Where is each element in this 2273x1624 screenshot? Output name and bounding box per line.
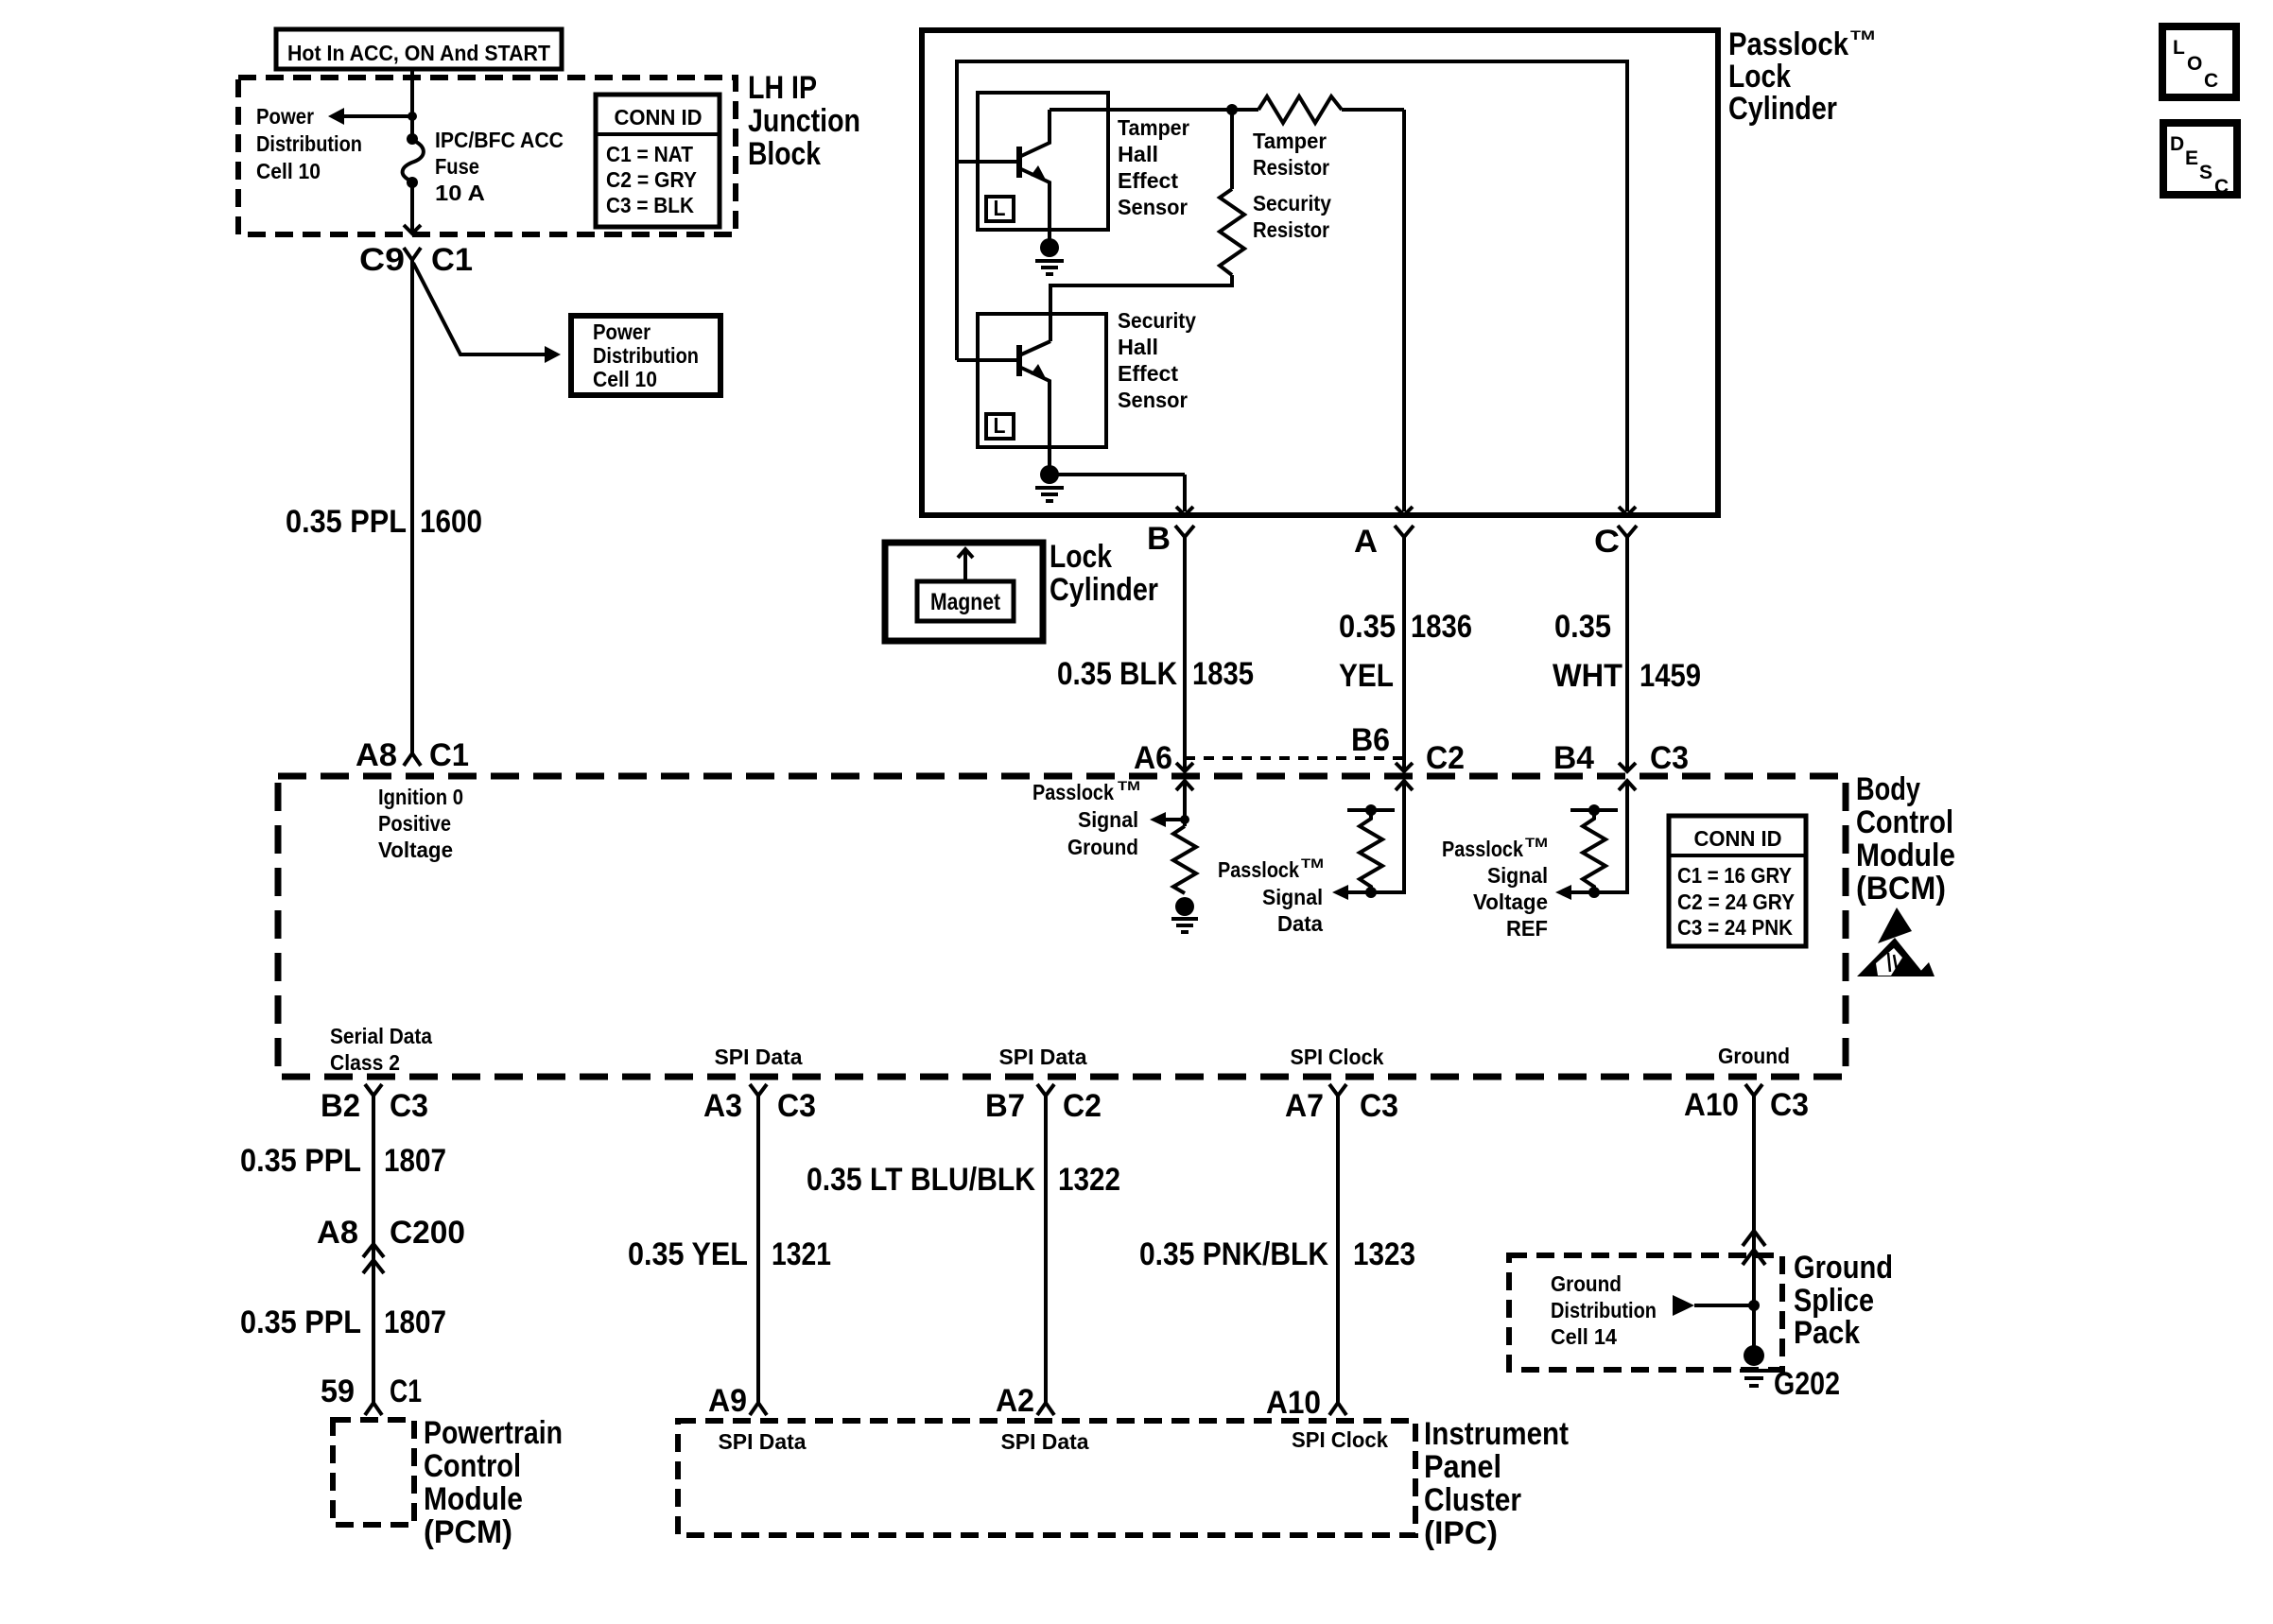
svg-text:TM: TM: [1118, 778, 1140, 793]
svg-text:C1 = 16 GRY: C1 = 16 GRY: [1677, 863, 1792, 888]
svg-text:G202: G202: [1774, 1366, 1840, 1402]
svg-text:Security: Security: [1118, 308, 1196, 333]
svg-text:C9: C9: [359, 242, 405, 278]
svg-text:SPI Data: SPI Data: [1001, 1429, 1089, 1454]
svg-text:SPI Data: SPI Data: [719, 1429, 807, 1454]
svg-text:C3 = 24 PNK: C3 = 24 PNK: [1677, 915, 1793, 940]
svg-text:(IPC): (IPC): [1424, 1515, 1498, 1551]
svg-text:A: A: [1354, 524, 1378, 560]
svg-text:1600: 1600: [420, 504, 482, 540]
svg-text:LH IP: LH IP: [748, 70, 817, 106]
svg-text:Signal: Signal: [1487, 863, 1548, 888]
svg-text:1807: 1807: [384, 1304, 446, 1340]
svg-text:Instrument: Instrument: [1424, 1416, 1569, 1452]
svg-text:L: L: [994, 196, 1006, 220]
svg-text:Ground: Ground: [1794, 1250, 1893, 1286]
svg-text:S: S: [2199, 162, 2212, 183]
svg-text:IPC/BFC ACC: IPC/BFC ACC: [435, 128, 564, 152]
svg-text:Signal: Signal: [1078, 807, 1138, 832]
svg-text:CONN ID: CONN ID: [1694, 826, 1782, 851]
svg-text:C1: C1: [431, 242, 473, 278]
svg-text:Security: Security: [1253, 191, 1331, 216]
svg-text:B6: B6: [1351, 722, 1390, 758]
svg-text:Ground: Ground: [1067, 835, 1138, 859]
svg-text:L: L: [2173, 37, 2185, 59]
svg-text:C1 = NAT: C1 = NAT: [606, 142, 693, 166]
svg-text:D: D: [2170, 133, 2184, 155]
svg-text:Positive: Positive: [378, 811, 451, 836]
svg-text:SPI Data: SPI Data: [715, 1045, 803, 1069]
svg-text:59: 59: [321, 1373, 355, 1409]
svg-text:Block: Block: [748, 136, 821, 172]
svg-text:Sensor: Sensor: [1118, 195, 1188, 219]
svg-text:0.35: 0.35: [1554, 609, 1611, 645]
svg-text:Module: Module: [1856, 838, 1955, 873]
svg-text:C: C: [2204, 70, 2218, 92]
svg-text:0.35 PPL: 0.35 PPL: [240, 1143, 361, 1179]
svg-text:Voltage: Voltage: [378, 838, 453, 862]
svg-text:Cluster: Cluster: [1424, 1482, 1521, 1518]
svg-text:Distribution: Distribution: [1551, 1298, 1657, 1322]
svg-text:C1: C1: [429, 737, 469, 773]
svg-text:Control: Control: [424, 1448, 521, 1484]
svg-text:SPI Clock: SPI Clock: [1292, 1427, 1388, 1452]
svg-text:Passlock: Passlock: [1442, 837, 1523, 861]
svg-text:C2: C2: [1063, 1088, 1102, 1124]
svg-text:O: O: [2187, 53, 2202, 75]
svg-text:1836: 1836: [1411, 609, 1472, 645]
svg-text:SPI Clock: SPI Clock: [1291, 1045, 1384, 1069]
svg-text:Lock: Lock: [1050, 539, 1112, 575]
svg-text:1835: 1835: [1192, 656, 1254, 692]
svg-text:Tamper: Tamper: [1253, 129, 1327, 153]
svg-text:0.35 BLK: 0.35 BLK: [1057, 656, 1177, 692]
svg-text:0.35: 0.35: [1339, 609, 1396, 645]
svg-text:Tamper: Tamper: [1118, 115, 1189, 140]
svg-text:B4: B4: [1553, 740, 1594, 776]
svg-text:WHT: WHT: [1553, 658, 1622, 694]
svg-text:Sensor: Sensor: [1118, 388, 1188, 412]
svg-text:C2 = 24 GRY: C2 = 24 GRY: [1677, 890, 1795, 914]
svg-text:REF: REF: [1506, 916, 1548, 941]
svg-text:Resistor: Resistor: [1253, 155, 1329, 180]
svg-text:Signal: Signal: [1262, 885, 1323, 909]
svg-text:0.35 PPL: 0.35 PPL: [240, 1304, 361, 1340]
svg-text:B2: B2: [321, 1088, 360, 1124]
svg-text:Distribution: Distribution: [593, 343, 699, 368]
svg-text:C: C: [2214, 176, 2229, 198]
svg-text:Cylinder: Cylinder: [1050, 572, 1158, 608]
svg-text:C2 = GRY: C2 = GRY: [606, 167, 697, 192]
svg-text:YEL: YEL: [1339, 658, 1394, 694]
svg-text:Lock: Lock: [1728, 59, 1791, 95]
svg-text:B7: B7: [985, 1088, 1025, 1124]
svg-text:E: E: [2185, 147, 2198, 169]
svg-text:Power: Power: [593, 320, 651, 344]
svg-text:L: L: [994, 413, 1006, 438]
svg-text:SPI Data: SPI Data: [999, 1045, 1087, 1069]
svg-text:Passlock: Passlock: [1728, 26, 1848, 62]
svg-text:(BCM): (BCM): [1856, 871, 1946, 907]
svg-text:C200: C200: [390, 1215, 465, 1251]
svg-text:1322: 1322: [1058, 1162, 1120, 1198]
svg-text:Serial Data: Serial Data: [330, 1024, 432, 1048]
svg-text:Voltage: Voltage: [1473, 890, 1548, 914]
svg-text:Powertrain: Powertrain: [424, 1415, 563, 1451]
svg-text:TM: TM: [1850, 27, 1875, 43]
svg-text:C3: C3: [390, 1088, 428, 1124]
svg-text:Fuse: Fuse: [435, 154, 479, 179]
svg-text:Control: Control: [1856, 804, 1953, 840]
svg-text:Splice: Splice: [1794, 1283, 1874, 1319]
svg-text:Resistor: Resistor: [1253, 217, 1329, 242]
svg-text:Effect: Effect: [1118, 361, 1178, 386]
svg-text:Power: Power: [256, 104, 314, 129]
svg-text:C2: C2: [1426, 740, 1465, 776]
svg-text:CONN ID: CONN ID: [615, 105, 703, 130]
svg-text:Ground: Ground: [1551, 1271, 1622, 1296]
svg-text:C3: C3: [1770, 1087, 1809, 1123]
svg-text:A10: A10: [1684, 1087, 1739, 1123]
svg-text:Ground: Ground: [1718, 1044, 1790, 1068]
svg-text:Cell 10: Cell 10: [256, 159, 321, 183]
svg-text:TM: TM: [1525, 835, 1548, 850]
svg-text:0.35 PNK/BLK: 0.35 PNK/BLK: [1139, 1236, 1328, 1272]
svg-text:(PCM): (PCM): [424, 1514, 512, 1550]
svg-text:A3: A3: [703, 1088, 742, 1124]
svg-text:Passlock: Passlock: [1032, 780, 1114, 804]
svg-text:Cylinder: Cylinder: [1728, 91, 1837, 127]
svg-text:0.35 PPL: 0.35 PPL: [286, 504, 407, 540]
svg-text:Distribution: Distribution: [256, 131, 362, 156]
svg-text:C3: C3: [777, 1088, 816, 1124]
svg-text:Hot In ACC, ON And START: Hot In ACC, ON And START: [287, 41, 550, 65]
svg-text:TM: TM: [1301, 855, 1324, 871]
svg-text:Effect: Effect: [1118, 168, 1178, 193]
svg-text:Class 2: Class 2: [330, 1050, 400, 1075]
svg-text:Hall: Hall: [1118, 142, 1158, 166]
svg-text:1321: 1321: [772, 1236, 831, 1272]
svg-text:Cell 10: Cell 10: [593, 367, 657, 391]
svg-text:A7: A7: [1285, 1088, 1324, 1124]
svg-text:C3: C3: [1650, 740, 1689, 776]
svg-text:Magnet: Magnet: [930, 589, 1001, 615]
svg-text:A8: A8: [317, 1215, 358, 1251]
svg-text:B: B: [1147, 521, 1171, 557]
svg-text:C3: C3: [1360, 1088, 1398, 1124]
svg-text:Body: Body: [1856, 771, 1920, 807]
svg-text:A6: A6: [1134, 740, 1172, 776]
svg-text:Passlock: Passlock: [1218, 857, 1299, 882]
svg-text:Hall: Hall: [1118, 335, 1158, 359]
svg-text:Ignition 0: Ignition 0: [378, 785, 463, 809]
svg-text:C3 = BLK: C3 = BLK: [606, 193, 694, 217]
svg-text:1459: 1459: [1640, 658, 1701, 694]
svg-text:Data: Data: [1277, 911, 1323, 936]
svg-text:Panel: Panel: [1424, 1449, 1501, 1485]
svg-text:A10: A10: [1266, 1385, 1321, 1421]
svg-text:1807: 1807: [384, 1143, 446, 1179]
svg-text:1323: 1323: [1353, 1236, 1415, 1272]
svg-text:Pack: Pack: [1794, 1315, 1860, 1351]
svg-text:A2: A2: [996, 1383, 1034, 1419]
svg-text:10 A: 10 A: [435, 181, 485, 205]
svg-text:C1: C1: [390, 1373, 422, 1409]
svg-text:A9: A9: [708, 1383, 747, 1419]
svg-text:Cell 14: Cell 14: [1551, 1324, 1617, 1349]
svg-text:0.35 LT BLU/BLK: 0.35 LT BLU/BLK: [807, 1162, 1035, 1198]
svg-text:C: C: [1594, 524, 1620, 560]
svg-text:0.35 YEL: 0.35 YEL: [628, 1236, 748, 1272]
svg-text:Module: Module: [424, 1481, 523, 1517]
svg-text:Junction: Junction: [748, 103, 860, 139]
svg-text:A8: A8: [356, 737, 397, 773]
